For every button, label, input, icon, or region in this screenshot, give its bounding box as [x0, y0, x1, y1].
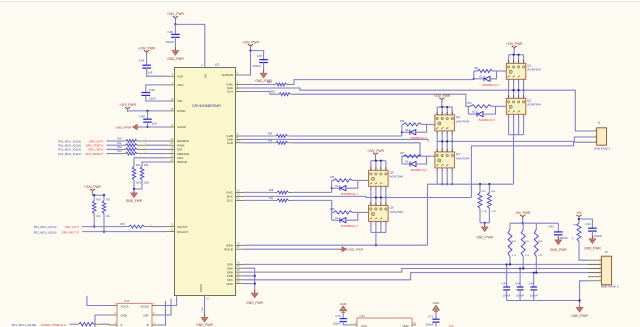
- wire ISEN rail: [244, 244, 428, 246]
- junction: [385, 196, 387, 198]
- wire: [451, 107, 453, 115]
- svg-text:DVDD: DVDD: [177, 109, 186, 113]
- wire: [509, 134, 524, 136]
- junction: [254, 282, 256, 284]
- resistor R30 0R: [122, 140, 126, 142]
- junction: [441, 140, 443, 142]
- junction: [441, 140, 443, 142]
- wire: [107, 153, 123, 155]
- svg-text:Q5: Q5: [390, 170, 394, 174]
- pin 22 SPC: [236, 279, 244, 281]
- junction: [506, 263, 508, 265]
- diode D5 B340BFVQ-7: [331, 180, 333, 192]
- svg-text:R39: R39: [330, 209, 335, 211]
- wire: [92, 190, 94, 196]
- wire: [375, 161, 377, 171]
- pin 21 SNB: [236, 275, 244, 277]
- wire U11 pin1: [87, 296, 109, 306]
- svg-text:C43: C43: [502, 282, 508, 286]
- svg-text:+24V_PWR: +24V_PWR: [138, 46, 155, 50]
- wire: [82, 231, 167, 233]
- svg-text:GLB: GLB: [227, 141, 233, 145]
- wire: [293, 191, 332, 193]
- wire: [523, 114, 525, 134]
- svg-text:R25: R25: [400, 121, 405, 123]
- junction: [513, 54, 515, 56]
- ground GND_PWR (C37): [263, 70, 265, 73]
- pin 2 J6: [588, 263, 601, 265]
- wire: [134, 158, 167, 167]
- wire: [508, 79, 510, 90]
- junction: [249, 49, 251, 51]
- svg-text:AON7544: AON7544: [390, 210, 404, 214]
- svg-text:GND_PWR: GND_PWR: [476, 236, 493, 240]
- junction: [93, 194, 95, 196]
- junction: [441, 183, 443, 185]
- junction: [380, 160, 382, 162]
- wire phase B to J1: [452, 137, 591, 141]
- wire SNA/SNB/SNC gnd: [244, 268, 255, 292]
- wire: [480, 222, 489, 224]
- pin 6 U11 right: [152, 305, 160, 307]
- resistor R27 gate: [402, 155, 404, 157]
- junction: [578, 299, 580, 301]
- svg-text:0.1R: 0.1R: [491, 211, 496, 213]
- wire: [488, 184, 490, 192]
- svg-text:C44: C44: [515, 282, 521, 286]
- wire SPB to J6: [244, 269, 602, 273]
- resistor R21 gate: [474, 70, 478, 72]
- svg-text:VTAB: VTAB: [201, 307, 204, 313]
- resistor R32 0R: [122, 148, 126, 150]
- svg-text:1: 1: [380, 224, 381, 226]
- wire U11 pin6: [160, 296, 177, 305]
- pin 1 J6: [588, 259, 601, 261]
- junction: [146, 126, 148, 128]
- wire: [147, 144, 167, 146]
- resistor R25 gate: [402, 123, 403, 125]
- wire: [385, 186, 387, 197]
- svg-text:R36: R36: [96, 199, 101, 201]
- wire: [146, 51, 148, 65]
- resistor R33 0R: [122, 153, 126, 155]
- svg-text:R33: R33: [117, 151, 122, 153]
- svg-text:SNC: SNC: [227, 282, 234, 286]
- wire Q2 source to sense bus: [513, 135, 515, 185]
- svg-text:Q1: Q1: [527, 63, 531, 67]
- wire: [174, 24, 176, 33]
- svg-text:100nF: 100nF: [593, 234, 602, 238]
- resistor R28 (GHC): [274, 191, 277, 193]
- pin 2 U11: [109, 314, 117, 316]
- wire: [375, 153, 377, 160]
- pin 23 SNC: [236, 283, 244, 285]
- wire: [244, 135, 273, 137]
- wire: [370, 161, 372, 171]
- wire phase C east: [386, 197, 472, 199]
- connector J6 B6B-XASK-1: [601, 256, 611, 285]
- svg-text:3: 3: [437, 133, 438, 135]
- wire: [441, 131, 443, 142]
- svg-text:GND_PWR: GND_PWR: [584, 247, 601, 251]
- ground GND_PWR (EPAD): [204, 314, 206, 317]
- wire: [519, 290, 521, 301]
- wire: [292, 143, 420, 156]
- wire: [244, 275, 255, 277]
- svg-text:C42: C42: [548, 224, 554, 228]
- pin 4 VDRAIN: [236, 74, 244, 76]
- wire SHB: [244, 139, 429, 141]
- wire: [427, 155, 435, 157]
- wire: [107, 140, 123, 142]
- wire: [371, 160, 386, 162]
- wire: [518, 79, 520, 90]
- svg-text:P01_MCU_IO(1B): P01_MCU_IO(1B): [12, 323, 36, 327]
- svg-text:100k: 100k: [144, 183, 150, 185]
- svg-text:2: 2: [375, 224, 376, 226]
- svg-text:R30: R30: [117, 139, 122, 141]
- svg-text:AON7544: AON7544: [527, 103, 541, 107]
- wire sense bus down to ISEN rail: [427, 184, 429, 245]
- wire: [446, 107, 448, 115]
- wire: [291, 80, 474, 85]
- wire SHC: [244, 196, 371, 197]
- pin 13 GHC: [236, 191, 244, 193]
- ground GND_PWR (J6 caps): [579, 304, 581, 307]
- junction: [146, 110, 148, 112]
- svg-text:+24V_PWR: +24V_PWR: [167, 12, 184, 16]
- svg-text:B6B-XASK-1: B6B-XASK-1: [601, 285, 619, 289]
- svg-text:R26: R26: [268, 140, 273, 142]
- svg-text:P01_MCU_IO(1A): P01_MCU_IO(1A): [34, 225, 57, 229]
- wire U11 pin5: [160, 299, 171, 315]
- svg-text:DRV_FG: DRV_FG: [65, 225, 76, 229]
- capacitor C71 100nF: [432, 318, 439, 320]
- wire: [436, 168, 438, 184]
- wire: [244, 199, 274, 201]
- transistor Q2 AON7544: [506, 95, 526, 117]
- svg-text:1: 1: [447, 170, 448, 172]
- svg-text:+3V3_PWR: +3V3_PWR: [84, 185, 101, 189]
- wire: [93, 195, 95, 200]
- svg-text:3: 3: [508, 82, 509, 84]
- svg-text:VCCB: VCCB: [140, 304, 148, 308]
- pin 4 U11 right: [152, 324, 160, 326]
- pin 20 SPB: [236, 271, 244, 273]
- junction: [488, 183, 490, 185]
- wire: [518, 114, 520, 134]
- svg-text:B3B-XASK-1: B3B-XASK-1: [594, 146, 611, 150]
- svg-text:VCP: VCP: [177, 74, 183, 78]
- svg-text:C39: C39: [149, 88, 155, 92]
- svg-text:GND_PWR: GND_PWR: [167, 57, 184, 61]
- transistor Q5 AON7544: [369, 167, 389, 189]
- resistor R38 (FGOUT): [125, 226, 129, 228]
- junction: [446, 183, 448, 185]
- pin 1 CPH: [167, 84, 175, 86]
- wire: [101, 323, 109, 326]
- wire: [513, 114, 515, 134]
- svg-text:R22: R22: [271, 92, 276, 94]
- wire: [343, 321, 353, 325]
- wire: [380, 221, 382, 232]
- wire: [139, 126, 167, 128]
- diode D3 B340BFVQ-7: [401, 124, 403, 136]
- wire: [375, 221, 377, 232]
- junction: [446, 140, 448, 142]
- svg-text:U17: U17: [360, 314, 366, 318]
- svg-text:AON7544: AON7544: [456, 156, 470, 160]
- junction: [518, 89, 520, 91]
- svg-text:3: 3: [370, 189, 371, 191]
- svg-text:U7: U7: [215, 63, 219, 67]
- wire: [107, 144, 123, 146]
- wire: [441, 107, 443, 115]
- resistor R22 (GLA): [276, 93, 279, 95]
- wire: [523, 55, 525, 64]
- phase B node wire: [437, 140, 452, 142]
- pin 24 ENABLE: [167, 140, 175, 142]
- pin 25 PWM: [167, 144, 175, 146]
- svg-text:P01_MCU_IO(1A): P01_MCU_IO(1A): [58, 152, 81, 156]
- pin 9 SHB: [236, 138, 244, 140]
- svg-text:GND: GND: [121, 314, 127, 318]
- svg-text:+24V_PWR: +24V_PWR: [506, 42, 523, 46]
- diode D4 B340BFVQ-7: [401, 156, 403, 164]
- svg-text:R41: R41: [269, 198, 274, 200]
- svg-text:B: B: [147, 323, 149, 327]
- svg-text:R28: R28: [269, 190, 274, 192]
- wire: [152, 226, 167, 228]
- wire: [508, 55, 510, 64]
- svg-text:STEER_PWR(1): STEER_PWR(1): [41, 323, 63, 327]
- transistor Q6 AON7544: [369, 202, 389, 224]
- svg-text:C45: C45: [529, 282, 535, 286]
- wire: [535, 223, 537, 229]
- wire: [385, 221, 387, 232]
- junction: [523, 89, 525, 91]
- pin 3 J1: [592, 141, 597, 143]
- wire: [146, 85, 167, 92]
- wire: [380, 186, 382, 197]
- pin 3 J6: [588, 268, 601, 270]
- capacitor C34 1uF: [142, 64, 151, 66]
- pin 22 VDS: [167, 157, 175, 159]
- wire: [82, 226, 125, 228]
- wire: [147, 68, 167, 76]
- svg-text:EPAD: EPAD: [199, 284, 203, 292]
- svg-text:4: 4: [523, 82, 524, 84]
- svg-text:Q3: Q3: [456, 115, 460, 119]
- wire: [128, 108, 167, 111]
- svg-text:B340BFVQ-7: B340BFVQ-7: [411, 168, 428, 172]
- svg-text:R37: R37: [106, 199, 111, 201]
- svg-text:B340BFVQ-7: B340BFVQ-7: [483, 83, 500, 87]
- wire: [358, 179, 369, 181]
- svg-text:R34: R34: [136, 165, 141, 167]
- svg-text:GND_PWR: GND_PWR: [116, 125, 133, 129]
- wire: [436, 107, 438, 115]
- wire: [437, 106, 452, 108]
- pin 4 J6: [588, 272, 601, 274]
- wire: [103, 214, 105, 232]
- resistor R39 gate: [332, 211, 334, 213]
- wire phase A to J1: [524, 90, 592, 131]
- svg-text:+5V: +5V: [576, 211, 583, 215]
- wire: [70, 323, 76, 325]
- wire: [427, 123, 435, 125]
- svg-text:AON7544: AON7544: [456, 119, 470, 123]
- wire: [441, 99, 443, 108]
- junction: [518, 89, 520, 91]
- wire: [436, 131, 438, 142]
- wire: [370, 221, 372, 232]
- svg-text:GLC: GLC: [227, 199, 234, 203]
- wire: [506, 290, 508, 301]
- svg-text:GND_PWR: GND_PWR: [196, 323, 213, 327]
- svg-text:4: 4: [452, 170, 453, 172]
- svg-text:1uF: 1uF: [147, 70, 152, 74]
- svg-text:C70: C70: [335, 314, 341, 318]
- pin 7 GLA: [236, 91, 244, 93]
- wire: [513, 90, 515, 98]
- wire: [579, 219, 592, 228]
- diode D6 B340BFVQ-7: [331, 212, 333, 220]
- svg-text:C71: C71: [428, 314, 434, 318]
- wire: [93, 214, 95, 227]
- phase C node wire: [371, 197, 386, 199]
- wire Q6 source down to ISEN rail: [375, 232, 377, 245]
- wire: [446, 131, 448, 142]
- junction: [331, 187, 333, 189]
- IC U7 DRV8308BRSMR body: [175, 68, 236, 296]
- wire PGND stub: [244, 248, 341, 250]
- wire: [497, 70, 507, 72]
- pin 17 PGND: [236, 248, 244, 250]
- svg-text:P01_MCU_IO(1A): P01_MCU_IO(1A): [34, 230, 57, 234]
- junction: [133, 188, 135, 190]
- capacitor C70 100nF: [340, 318, 347, 320]
- svg-text:2: 2: [513, 117, 514, 119]
- wire: [435, 322, 437, 327]
- svg-text:100nF: 100nF: [426, 323, 434, 327]
- svg-text:4: 4: [385, 224, 386, 226]
- wire: [578, 216, 580, 223]
- wire: [244, 283, 255, 285]
- wire: [375, 198, 377, 206]
- wire: [509, 223, 511, 229]
- svg-text:VCCA: VCCA: [121, 304, 129, 308]
- junction: [518, 54, 520, 56]
- pin 6 SHA: [236, 87, 244, 89]
- wire cap gnd bar: [507, 300, 580, 302]
- svg-text:0.1R: 0.1R: [482, 211, 487, 213]
- wire SPA to J6: [244, 263, 602, 265]
- wire: [533, 290, 535, 301]
- svg-text:C34: C34: [139, 59, 145, 63]
- wire: [385, 198, 387, 206]
- junction: [174, 23, 176, 25]
- junction: [509, 263, 511, 265]
- pin 19 SNA: [236, 267, 244, 269]
- ground GND_PWR (sense): [484, 224, 486, 227]
- svg-text:+5V_PWR: +5V_PWR: [515, 211, 531, 215]
- wire: [295, 94, 469, 106]
- svg-text:Q6: Q6: [390, 205, 394, 209]
- svg-text:3: 3: [370, 224, 371, 226]
- phase A node wire: [509, 89, 524, 91]
- IC U17 body (partial): [357, 318, 412, 327]
- wire: [519, 269, 521, 287]
- svg-text:2: 2: [442, 170, 443, 172]
- pin 5 U11 right: [152, 314, 160, 316]
- resistor R41 (GLC): [274, 199, 277, 201]
- junction: [535, 271, 537, 273]
- wire: [451, 141, 453, 152]
- wire: [535, 257, 537, 273]
- wire SHA phase A: [244, 88, 509, 90]
- ground GND_PWR (C36): [174, 47, 176, 50]
- svg-text:+24V_PWR: +24V_PWR: [242, 40, 259, 44]
- wire J6 pin6 to gnd bar: [580, 281, 588, 301]
- wire low-side source bus: [427, 183, 514, 185]
- svg-text:+24V_PWR: +24V_PWR: [433, 94, 450, 98]
- junction: [401, 131, 403, 133]
- svg-text:+24V_PWR: +24V_PWR: [367, 149, 384, 153]
- pin 14 SHC: [236, 195, 244, 197]
- wire: [107, 148, 123, 150]
- wire: [147, 111, 149, 119]
- wire: [479, 209, 481, 223]
- svg-text:R24: R24: [268, 134, 273, 136]
- wire: [523, 79, 525, 90]
- svg-text:1uF: 1uF: [152, 122, 157, 126]
- connector J1 B3B-XASK-1: [597, 128, 607, 145]
- wire: [244, 51, 251, 75]
- svg-text:4: 4: [385, 189, 386, 191]
- pin 28 DVDD: [167, 110, 175, 112]
- wire: [508, 90, 510, 98]
- resistor R29 gate: [332, 179, 334, 181]
- junction: [375, 160, 377, 162]
- wire: [380, 161, 382, 171]
- svg-text:22nF: 22nF: [149, 97, 156, 101]
- wire: [518, 55, 520, 64]
- pin 8 GHB: [236, 135, 244, 137]
- wire: [103, 195, 105, 200]
- junction: [375, 196, 377, 198]
- svg-text:GND_PWR: GND_PWR: [550, 248, 567, 252]
- IC U11 level shifter: [117, 303, 152, 327]
- wire: [446, 141, 448, 152]
- wire: [479, 184, 481, 192]
- svg-text:R32: R32: [117, 147, 122, 149]
- wire: [146, 96, 167, 101]
- pin 23 IDRIVE: [167, 161, 175, 163]
- wire: [518, 90, 520, 98]
- junction: [375, 196, 377, 198]
- pin 5 J6: [588, 276, 601, 278]
- svg-text:GND_PWR: GND_PWR: [571, 314, 588, 318]
- junction: [533, 272, 535, 274]
- pin 11 NFAULT: [167, 231, 175, 233]
- svg-text:GND_PWR: GND_PWR: [246, 301, 263, 305]
- svg-text:+: +: [572, 237, 574, 241]
- svg-text:R20: R20: [267, 82, 272, 84]
- svg-text:100nF: 100nF: [166, 40, 175, 44]
- svg-text:CPH: CPH: [177, 83, 183, 87]
- wire U11 pin4: [160, 301, 166, 325]
